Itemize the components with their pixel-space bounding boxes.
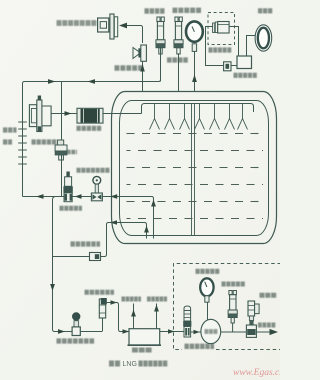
svg-text:LNG: LNG [123, 361, 137, 368]
vaporizer [128, 329, 162, 346]
label: inlet check valve [77, 126, 102, 131]
label: usage stop valve [57, 338, 96, 343]
arrow left right of regulator valve [75, 194, 82, 199]
wire: transmitter right drop [229, 27, 238, 57]
wire: buffer tank riser to gauge [207, 302, 209, 319]
arrow right after overflow valve [111, 300, 118, 305]
tank outer shell [112, 92, 277, 244]
label: pressure raising regulator [60, 206, 83, 211]
cylinder pressure gauge [186, 21, 203, 51]
wire: transmitter left drop [206, 27, 238, 66]
wire: solenoid to engine [256, 331, 270, 333]
arrow left on manifold [88, 79, 96, 84]
label: pressurizing stop valve [77, 168, 110, 173]
arrow right before regulator [168, 329, 175, 334]
label: level gauge [258, 8, 273, 13]
pressure building coil ticks [18, 122, 27, 164]
converter controller box [237, 56, 252, 69]
arrow right into vaporizer [123, 329, 130, 334]
wire: overflow valve to vaporizer [106, 303, 129, 332]
economizer valve [55, 140, 67, 160]
label: cooling water outlet [147, 297, 167, 302]
spray nozzles [150, 104, 248, 130]
wire: pressure building line [23, 196, 113, 198]
label: vent stop valve [115, 65, 145, 71]
wire: riser to overflow valve [102, 316, 104, 332]
solenoid valve [246, 301, 259, 337]
cooling water outlet line [156, 304, 158, 329]
arrow into connector [119, 23, 127, 29]
caption: figure title [109, 361, 168, 368]
wire: fill line [51, 113, 141, 115]
internal pipe A (pressure building suction) [112, 197, 154, 239]
pressure raising regulator valve [63, 172, 72, 202]
spray header [142, 104, 254, 114]
label: converter controller [234, 73, 258, 78]
label: main engine [258, 323, 276, 328]
label: secondary safety valve [167, 57, 189, 62]
tank inner shell [120, 101, 269, 236]
secondary safety valve [174, 17, 183, 54]
wire: gauge drop to tank top [194, 51, 196, 91]
pressurizing stop valve [91, 176, 102, 200]
gas pressure regulator [183, 306, 191, 337]
pipeline safety valve [228, 291, 237, 324]
label: pipeline safety valve [222, 282, 246, 287]
cryogenic fill connector [29, 96, 51, 132]
label: gas pressure regulator [185, 344, 215, 349]
wire: secondary safety valve drop to tank [178, 53, 180, 91]
arrow up on gauge line [192, 75, 197, 83]
wire: vent line horizontal [127, 26, 143, 44]
wire: top manifold line [23, 48, 161, 197]
label: cylinder pressure gauge [173, 8, 203, 13]
arrow left on pipe B at wall [110, 220, 117, 225]
wire: regulator to buffer tank [191, 331, 201, 333]
inlet check valve (dark cylinder) [77, 108, 103, 123]
wire: main safety valve drop [160, 53, 162, 81]
label: pressure transmitter [209, 47, 232, 52]
arrow right on manifold [48, 79, 56, 84]
label: buffer tank (inside) [205, 329, 218, 334]
arrow on cooling outlet [154, 305, 159, 312]
main safety valve [156, 17, 165, 54]
cooling water inlet line [133, 304, 135, 329]
arrow right on bottom run [58, 329, 65, 334]
liquid level dashed rows [127, 134, 264, 219]
label: vaporizer [132, 348, 153, 353]
evacuation connector [98, 14, 118, 39]
label: economizer valve [67, 150, 77, 155]
dip tube (double line) [191, 104, 193, 236]
arrow into buffer tank [194, 330, 200, 335]
dashed engine compartment box [174, 264, 282, 350]
arrow up on pipe A [151, 200, 156, 207]
valve: vent stop valve (bowtie) [133, 45, 146, 61]
label: self pressurizing coil (2 lines) [3, 127, 17, 132]
arrow up on pipe B [144, 226, 149, 233]
overflow protection valve [99, 298, 107, 318]
junction fitting on controller line [224, 62, 231, 71]
pressure transmitter [213, 22, 230, 34]
label: cryogenic fill port [32, 139, 57, 144]
usage stop valve [72, 312, 80, 335]
internal pipe B (liquid outlet) [112, 223, 147, 239]
buffer tank [201, 319, 221, 343]
wire: buffer tank to solenoid [221, 331, 247, 333]
wire: main feed drop and bottom run [53, 197, 103, 332]
arrow on cooling inlet [131, 310, 136, 317]
pipeline pressure gauge [200, 278, 213, 302]
arrow left near coil [36, 194, 44, 199]
label: main safety valve [145, 8, 165, 14]
wire: safety valve drop [232, 323, 234, 332]
label: evacuation (gas return) connector text [57, 20, 98, 26]
label: pipeline pressure gauge [196, 269, 220, 274]
arrow to main engine [270, 329, 279, 335]
wire: level gauge to controller [247, 36, 256, 57]
label: outlet check valve [71, 241, 101, 246]
arrow up on vent line [140, 64, 145, 72]
outlet check valve [90, 253, 101, 261]
level gauge [255, 25, 272, 51]
wire: outlet drop from tank [53, 223, 113, 257]
arrow left at tank wall [111, 194, 118, 199]
label: cooling water inlet [122, 297, 142, 302]
arrow right on fill line [65, 111, 72, 116]
wire: vent line to tank top [142, 61, 144, 91]
wire: vaporizer to gas regulator [160, 331, 184, 333]
transmitter dashed box [208, 13, 235, 45]
wire: fill branch vertical [61, 82, 63, 197]
arrow down on feed drop [50, 284, 55, 291]
svg-text:www.Egas.cn: www.Egas.cn [233, 368, 280, 378]
label: solenoid valve [260, 293, 278, 298]
label: overflow protection valve [85, 290, 115, 295]
